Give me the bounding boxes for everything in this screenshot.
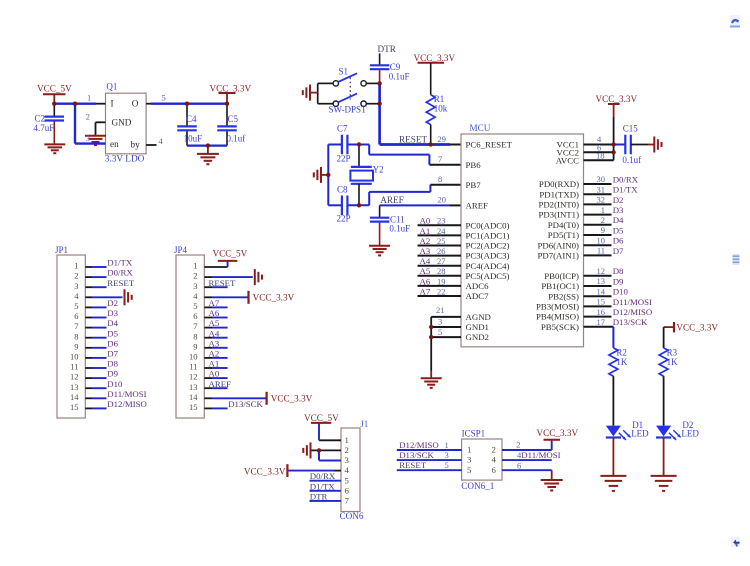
svg-text:7: 7 bbox=[438, 154, 442, 164]
wire JP4 pin 13 net AREF bbox=[189, 379, 231, 392]
wire JP1 pin 7 net D4 bbox=[74, 318, 118, 331]
wire PB7 path bbox=[369, 174, 461, 205]
power port VCC_3.3V at JP4 pin 4 bbox=[249, 291, 295, 304]
wire VCC vertical rail bbox=[613, 104, 615, 160]
ICSP1 pin numbers bbox=[467, 445, 497, 475]
node junction J1 pin2 bbox=[317, 448, 321, 452]
power port VCC_3.3V at ICSP1 bbox=[537, 428, 579, 440]
svg-text:VCC_5V: VCC_5V bbox=[37, 84, 72, 94]
capacitor C15 bbox=[614, 135, 654, 155]
power port VCC_3.3V at JP4 pin 14 bbox=[267, 392, 313, 405]
svg-text:PD3(INT1): PD3(INT1) bbox=[538, 210, 579, 220]
wire net A6 pin 19 bbox=[418, 276, 462, 286]
svg-text:D8: D8 bbox=[613, 266, 624, 276]
svg-text:VCC_5V: VCC_5V bbox=[213, 248, 248, 258]
wire R2 to D1 bbox=[612, 376, 614, 425]
svg-text:1K: 1K bbox=[616, 357, 628, 367]
svg-text:Y2: Y2 bbox=[373, 164, 384, 174]
label C15 value bbox=[622, 124, 641, 165]
svg-text:13: 13 bbox=[70, 382, 79, 392]
svg-text:D13/SCK: D13/SCK bbox=[613, 317, 648, 327]
svg-text:S1: S1 bbox=[339, 67, 349, 77]
svg-text:D0/RX: D0/RX bbox=[613, 174, 639, 184]
power port VCC_3.3V at R3 bbox=[664, 322, 719, 332]
wire VCC_5V rail to Q1 pin 1 bbox=[54, 102, 96, 104]
svg-text:1: 1 bbox=[467, 445, 471, 455]
svg-text:PC1(ADC1): PC1(ADC1) bbox=[466, 231, 510, 241]
connector JP1 box bbox=[57, 255, 85, 418]
wire JP1 pin 10 net D7 bbox=[70, 349, 119, 362]
svg-text:6: 6 bbox=[345, 485, 350, 495]
svg-text:15: 15 bbox=[189, 402, 198, 412]
svg-text:15: 15 bbox=[597, 297, 606, 307]
net label RESET bbox=[399, 135, 427, 145]
svg-text:15: 15 bbox=[70, 402, 79, 412]
svg-text:I: I bbox=[111, 98, 114, 108]
svg-text:13: 13 bbox=[189, 382, 198, 392]
svg-text:22P: 22P bbox=[337, 153, 351, 163]
wire JP4 pin 15 net D13/SCK bbox=[189, 399, 264, 412]
svg-text:5: 5 bbox=[467, 465, 472, 475]
svg-text:D11/MOSI: D11/MOSI bbox=[521, 450, 560, 460]
svg-text:VCC_3.3V: VCC_3.3V bbox=[537, 428, 579, 438]
svg-text:A2: A2 bbox=[420, 236, 431, 246]
svg-text:A7: A7 bbox=[420, 286, 431, 296]
ground below ICSP1 bbox=[541, 480, 563, 491]
svg-text:PD6(AIN0): PD6(AIN0) bbox=[537, 240, 579, 250]
label 3.3V LDO bbox=[105, 154, 145, 164]
svg-text:9: 9 bbox=[74, 341, 78, 351]
svg-text:PC5(ADC5): PC5(ADC5) bbox=[466, 271, 510, 281]
pin number 29 bbox=[438, 134, 447, 144]
svg-text:SW-DPST: SW-DPST bbox=[329, 104, 368, 114]
svg-text:19: 19 bbox=[437, 276, 446, 286]
wire AVCC pin 18 bbox=[584, 150, 614, 160]
label C4 value bbox=[184, 114, 203, 144]
svg-text:2: 2 bbox=[516, 439, 520, 449]
svg-text:3: 3 bbox=[74, 281, 78, 291]
wire net D1/TX pin 31 bbox=[584, 184, 639, 194]
svg-text:2: 2 bbox=[345, 445, 349, 455]
node junction C9/S1 top bbox=[377, 81, 381, 85]
svg-text:PC3(ADC3): PC3(ADC3) bbox=[466, 251, 510, 261]
svg-text:5: 5 bbox=[162, 93, 166, 103]
node junction crystal bottom bbox=[357, 203, 361, 207]
svg-text:D8: D8 bbox=[107, 359, 118, 369]
capacitor C11 bbox=[370, 205, 390, 245]
svg-text:C8: C8 bbox=[337, 185, 348, 195]
svg-text:AREF: AREF bbox=[209, 379, 232, 389]
svg-text:12: 12 bbox=[597, 266, 606, 276]
switch S1 link dotted bbox=[349, 78, 351, 100]
screen artifact bottom right bbox=[731, 537, 740, 548]
ground below C11 bbox=[369, 246, 390, 256]
wire net A5 pin 28 bbox=[418, 266, 462, 276]
svg-text:D9: D9 bbox=[107, 369, 118, 379]
svg-text:3: 3 bbox=[193, 281, 197, 291]
power port VCC_3.3V at regulator output bbox=[210, 83, 252, 103]
svg-text:1: 1 bbox=[74, 261, 78, 271]
Q1 pin names bbox=[110, 98, 140, 149]
svg-text:21: 21 bbox=[436, 305, 445, 315]
svg-text:Q1: Q1 bbox=[106, 82, 117, 92]
ground at J1 pin 2 bbox=[303, 442, 310, 458]
svg-text:LED: LED bbox=[631, 428, 649, 438]
svg-text:PD7(AIN1): PD7(AIN1) bbox=[537, 251, 579, 261]
wire J1 pin 4 to VCC_3.3V bbox=[288, 470, 341, 472]
svg-text:D12/MISO: D12/MISO bbox=[107, 399, 147, 409]
svg-text:PB3(MOSI): PB3(MOSI) bbox=[536, 302, 579, 312]
svg-text:A7: A7 bbox=[209, 298, 220, 308]
wire net D10 pin 14 bbox=[584, 286, 629, 296]
wire JP4 pin 2 to ground bbox=[193, 271, 253, 281]
svg-text:PB1(OC1): PB1(OC1) bbox=[541, 281, 579, 291]
label CON6 bbox=[340, 511, 364, 521]
node junction VCC1 bbox=[611, 142, 615, 146]
wire JP1 pin 2 net D0/RX bbox=[74, 268, 133, 281]
svg-text:R3: R3 bbox=[667, 347, 678, 357]
svg-text:D12/MISO: D12/MISO bbox=[613, 307, 653, 317]
connector JP4 box bbox=[176, 255, 204, 418]
svg-text:A6: A6 bbox=[420, 276, 431, 286]
svg-text:VCC_5V: VCC_5V bbox=[304, 413, 339, 423]
svg-text:C4: C4 bbox=[186, 114, 197, 124]
svg-text:PB6: PB6 bbox=[466, 160, 482, 170]
label J1 bbox=[360, 419, 368, 429]
svg-text:D1/TX: D1/TX bbox=[107, 258, 133, 268]
wire J1 pin 1 to VCC_5V bbox=[319, 423, 341, 440]
svg-text:PD4(T0): PD4(T0) bbox=[548, 220, 579, 230]
svg-text:PD1(TXD): PD1(TXD) bbox=[539, 189, 579, 199]
ground at JP4 pin 2 bbox=[255, 269, 262, 285]
svg-text:PD5(T1): PD5(T1) bbox=[548, 230, 579, 240]
svg-text:7: 7 bbox=[74, 321, 78, 331]
svg-text:1: 1 bbox=[345, 435, 349, 445]
svg-text:14: 14 bbox=[597, 286, 606, 296]
svg-text:4: 4 bbox=[492, 455, 497, 465]
wire D1 to ground bbox=[612, 438, 614, 476]
MCU right pin names bbox=[536, 140, 579, 332]
svg-text:VCC_3.3V: VCC_3.3V bbox=[596, 94, 638, 104]
node junction GND1 bbox=[429, 325, 433, 329]
wire D13 to R2 bbox=[612, 327, 614, 348]
capacitor C8 bbox=[342, 196, 348, 216]
svg-text:R2: R2 bbox=[616, 347, 627, 357]
svg-text:D13/SCK: D13/SCK bbox=[228, 399, 263, 409]
node junction crystal top bbox=[357, 142, 361, 146]
svg-text:10uF: 10uF bbox=[184, 134, 203, 144]
svg-text:6: 6 bbox=[517, 460, 521, 470]
power port VCC_5V at JP4 bbox=[213, 248, 248, 261]
svg-text:A4: A4 bbox=[209, 328, 220, 338]
node junction VCC2 bbox=[611, 150, 615, 154]
label C7 value bbox=[337, 124, 351, 164]
label C9 value bbox=[389, 62, 410, 82]
wire PB6 path bbox=[369, 145, 461, 165]
svg-text:32: 32 bbox=[597, 195, 606, 205]
svg-text:3: 3 bbox=[438, 317, 442, 327]
svg-text:24: 24 bbox=[437, 226, 446, 236]
svg-text:14: 14 bbox=[189, 392, 198, 402]
svg-text:PB5(SCK): PB5(SCK) bbox=[541, 322, 579, 332]
wire net D5 pin 9 bbox=[584, 225, 625, 235]
wire JP4 pin 8 net A4 bbox=[193, 328, 227, 341]
svg-text:11: 11 bbox=[597, 246, 605, 256]
svg-text:13: 13 bbox=[597, 276, 606, 286]
svg-text:RESET: RESET bbox=[399, 135, 427, 145]
svg-text:10: 10 bbox=[597, 235, 606, 245]
label D1 bbox=[631, 420, 649, 439]
svg-text:7: 7 bbox=[345, 496, 350, 506]
svg-text:D11/MOSI: D11/MOSI bbox=[107, 389, 146, 399]
net label AREF bbox=[380, 195, 446, 206]
screen artifact middle right bbox=[733, 254, 740, 265]
svg-text:by: by bbox=[131, 139, 141, 149]
node junction R1/RESET bbox=[429, 142, 433, 146]
wire MCU ground rail bbox=[430, 317, 432, 378]
svg-text:27: 27 bbox=[437, 256, 446, 266]
wire DTR to C9 bbox=[379, 53, 381, 65]
svg-text:8: 8 bbox=[74, 331, 78, 341]
svg-text:D3: D3 bbox=[613, 205, 624, 215]
switch S1 bottom pole bbox=[318, 94, 380, 107]
ground below D2 bbox=[651, 476, 677, 491]
svg-text:LED: LED bbox=[681, 428, 699, 438]
label C11 value bbox=[389, 215, 410, 234]
label Q1 bbox=[106, 82, 117, 92]
node junction gnd rail bbox=[206, 143, 210, 147]
svg-text:ICSP1: ICSP1 bbox=[462, 429, 486, 439]
svg-text:D2: D2 bbox=[107, 298, 118, 308]
wire ICSP1 pin 5 net RESET bbox=[397, 460, 462, 470]
svg-text:D4: D4 bbox=[107, 318, 118, 328]
ground below C2 bbox=[44, 144, 65, 153]
svg-text:DTR: DTR bbox=[378, 44, 397, 54]
svg-text:D1/TX: D1/TX bbox=[310, 481, 336, 491]
wire J1 pin 5 net D0/RX bbox=[310, 471, 342, 481]
svg-text:A3: A3 bbox=[420, 246, 431, 256]
capacitor C9 bbox=[370, 65, 390, 83]
svg-text:PB4(MISO): PB4(MISO) bbox=[536, 312, 579, 322]
wire reset vertical bbox=[378, 83, 381, 144]
svg-text:GND2: GND2 bbox=[466, 332, 489, 342]
wire net A4 pin 27 bbox=[418, 256, 462, 266]
svg-text:PC6_RESET: PC6_RESET bbox=[466, 140, 513, 150]
wire net D4 pin 2 bbox=[584, 215, 625, 225]
svg-text:23: 23 bbox=[437, 216, 446, 226]
svg-text:RESET: RESET bbox=[107, 278, 135, 288]
Q1 pin 1 stub bbox=[87, 93, 106, 104]
svg-text:1: 1 bbox=[87, 93, 91, 103]
wire JP4 pin 11 net A1 bbox=[189, 359, 227, 372]
regulator U Q1 box bbox=[106, 93, 147, 154]
wire net A2 pin 25 bbox=[418, 236, 462, 246]
svg-text:D10: D10 bbox=[107, 379, 123, 389]
wire R3 to D2 bbox=[663, 376, 665, 425]
Q1 pin 5 output stub bbox=[146, 93, 166, 104]
node junction C5/VCC3.3 bbox=[225, 102, 229, 106]
svg-text:17: 17 bbox=[597, 317, 606, 327]
wire JP1 pin 1 net D1/TX bbox=[74, 258, 133, 271]
wire C4-C5 ground rail bbox=[187, 145, 227, 147]
label R3 value bbox=[667, 347, 679, 367]
svg-text:2: 2 bbox=[86, 112, 90, 122]
svg-text:0.1uF: 0.1uF bbox=[389, 224, 410, 234]
svg-text:D3: D3 bbox=[107, 308, 118, 318]
ground below MCU bbox=[421, 378, 442, 388]
crystal Y2 bbox=[350, 145, 373, 206]
svg-text:D9: D9 bbox=[613, 276, 624, 286]
Q1 pin 3 wire from VCC bbox=[75, 104, 106, 144]
svg-text:16: 16 bbox=[597, 307, 606, 317]
wire net D11/MOSI pin 15 bbox=[584, 297, 653, 307]
wire VCC1 pin 4 bbox=[584, 134, 614, 145]
connector J1 box bbox=[341, 428, 360, 512]
wire crystal bottom rail bbox=[328, 204, 369, 206]
node junction C2/VCC bbox=[52, 102, 56, 106]
svg-text:A6: A6 bbox=[209, 308, 220, 318]
svg-text:RESET: RESET bbox=[209, 278, 237, 288]
power port VCC_3.3V at R1 bbox=[414, 53, 456, 94]
svg-text:5: 5 bbox=[438, 327, 442, 337]
node junction left rail bbox=[326, 173, 330, 177]
svg-text:en: en bbox=[110, 139, 119, 149]
svg-text:JP4: JP4 bbox=[174, 245, 188, 255]
wire JP1 pin 3 net RESET bbox=[74, 278, 135, 291]
label MCU bbox=[470, 123, 491, 133]
svg-text:D6: D6 bbox=[613, 236, 624, 246]
svg-text:ADC7: ADC7 bbox=[466, 291, 490, 301]
svg-text:8: 8 bbox=[193, 331, 197, 341]
wire VCC to R3 bbox=[663, 327, 665, 348]
wire JP1 pin 13 net D10 bbox=[70, 379, 123, 392]
svg-text:9: 9 bbox=[601, 225, 605, 235]
capacitor C4 bbox=[177, 104, 197, 146]
wire JP1 pin 6 net D3 bbox=[74, 308, 118, 321]
svg-text:C7: C7 bbox=[337, 124, 348, 134]
svg-text:A0: A0 bbox=[420, 216, 431, 226]
wire JP4 pin 9 net A3 bbox=[193, 338, 227, 351]
wire J1 pin 6 net D1/TX bbox=[310, 481, 342, 491]
svg-text:C9: C9 bbox=[390, 62, 401, 72]
diode D2 LED bbox=[656, 426, 681, 440]
svg-text:VCC_3.3V: VCC_3.3V bbox=[210, 83, 252, 93]
wire AREF rail bbox=[380, 204, 461, 206]
wire D2 to ground bbox=[663, 438, 665, 476]
svg-text:D7: D7 bbox=[107, 349, 118, 359]
wire J1 pin2 to pin3 bbox=[319, 450, 341, 460]
svg-text:A0: A0 bbox=[209, 369, 220, 379]
wire S1 left rail bbox=[311, 83, 318, 103]
wire RESET rail to MCU bbox=[380, 143, 461, 146]
svg-text:2: 2 bbox=[492, 445, 496, 455]
wire net A3 pin 26 bbox=[418, 246, 462, 256]
svg-text:AREF: AREF bbox=[380, 195, 404, 205]
svg-text:D4: D4 bbox=[613, 215, 624, 225]
svg-text:A5: A5 bbox=[420, 266, 431, 276]
svg-text:2: 2 bbox=[193, 271, 197, 281]
wire JP4 pin 1 to VCC_5V bbox=[193, 261, 227, 271]
svg-text:5: 5 bbox=[193, 301, 197, 311]
svg-text:1K: 1K bbox=[667, 357, 679, 367]
label D2 bbox=[681, 420, 699, 439]
label R1 value bbox=[434, 94, 448, 113]
wire AGND pin 21 bbox=[431, 305, 461, 317]
svg-text:GND: GND bbox=[112, 118, 132, 128]
svg-text:3: 3 bbox=[467, 455, 472, 465]
wire net D13/SCK pin 17 bbox=[584, 317, 649, 327]
wire net A0 pin 23 bbox=[418, 216, 462, 226]
ic MCU box bbox=[461, 134, 584, 347]
svg-text:30: 30 bbox=[597, 174, 606, 184]
wire JP1 pin 11 net D8 bbox=[70, 359, 118, 372]
svg-text:12: 12 bbox=[189, 372, 198, 382]
MCU left pin names bbox=[466, 140, 513, 343]
ground at C15 bbox=[654, 137, 661, 153]
svg-text:26: 26 bbox=[437, 246, 446, 256]
svg-text:25: 25 bbox=[437, 236, 446, 246]
switch S1 top pole bbox=[318, 73, 380, 86]
wire crystal top rail bbox=[328, 144, 369, 146]
svg-text:3: 3 bbox=[445, 450, 449, 460]
svg-text:8: 8 bbox=[438, 174, 442, 184]
wire J1 pin 7 net DTR bbox=[310, 491, 342, 501]
wire GND1 pin 3 bbox=[431, 317, 461, 327]
ground at S1 bbox=[303, 85, 310, 101]
label C8 value bbox=[337, 185, 351, 224]
svg-text:1: 1 bbox=[193, 261, 197, 271]
power port VCC_5V bbox=[37, 84, 72, 104]
svg-text:VCC_3.3V: VCC_3.3V bbox=[676, 322, 718, 332]
capacitor C7 bbox=[342, 135, 348, 155]
label R2 value bbox=[616, 347, 628, 367]
wire ICSP1 pin 3 net D13/SCK bbox=[397, 450, 462, 460]
label JP1 bbox=[55, 245, 68, 255]
svg-text:22: 22 bbox=[437, 286, 446, 296]
svg-text:A4: A4 bbox=[420, 256, 431, 266]
svg-text:6: 6 bbox=[492, 465, 497, 475]
svg-text:10k: 10k bbox=[434, 103, 448, 113]
resistor R2 bbox=[609, 348, 618, 376]
svg-text:JP1: JP1 bbox=[55, 245, 68, 255]
svg-text:2: 2 bbox=[74, 271, 78, 281]
svg-text:6: 6 bbox=[193, 311, 197, 321]
svg-text:C15: C15 bbox=[623, 124, 639, 134]
svg-text:A5: A5 bbox=[209, 318, 220, 328]
wire JP4 pin 3 net RESET bbox=[193, 278, 236, 291]
wire crystal left rail bbox=[322, 145, 329, 206]
wire JP4 pin 6 net A6 bbox=[193, 308, 227, 321]
net label DTR bbox=[378, 44, 397, 54]
svg-text:A1: A1 bbox=[209, 359, 220, 369]
svg-text:PD0(RXD): PD0(RXD) bbox=[539, 179, 579, 189]
svg-text:29: 29 bbox=[438, 134, 447, 144]
label JP4 bbox=[174, 245, 188, 255]
svg-text:28: 28 bbox=[437, 266, 446, 276]
svg-text:22P: 22P bbox=[337, 214, 351, 224]
wire JP4 pin 10 net A2 bbox=[189, 349, 228, 362]
svg-text:VCC_3.3V: VCC_3.3V bbox=[244, 466, 286, 476]
svg-text:6: 6 bbox=[74, 311, 78, 321]
wire net D12/MISO pin 16 bbox=[584, 307, 653, 317]
wire ICSP1 pin 1 net D12/MISO bbox=[397, 440, 462, 450]
svg-text:4: 4 bbox=[345, 465, 350, 475]
wire ICSP1 pin 4 net D11/MOSI bbox=[502, 450, 561, 460]
label SW-DPST bbox=[329, 104, 368, 114]
svg-text:VCC_3.3V: VCC_3.3V bbox=[253, 293, 295, 303]
svg-text:1: 1 bbox=[601, 205, 605, 215]
wire JP1 pin 15 net D12/MISO bbox=[70, 399, 147, 412]
